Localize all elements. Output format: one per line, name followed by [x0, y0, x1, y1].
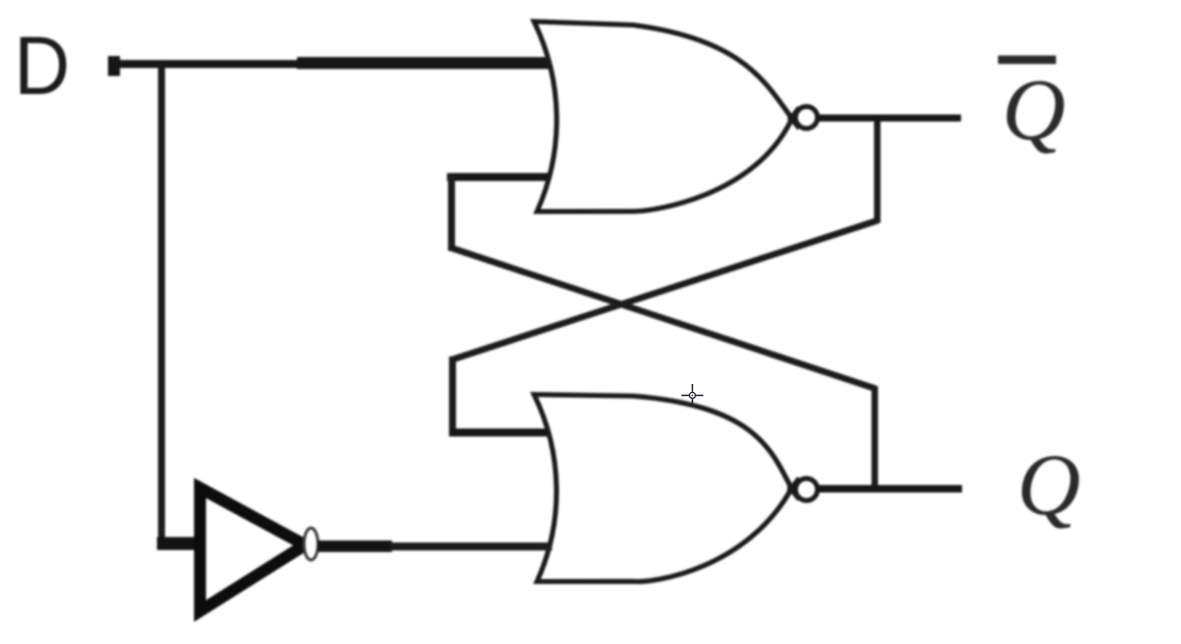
wire left vertical lower (feedback) — [449, 357, 456, 437]
inverter U3 output bubble — [304, 528, 318, 560]
wire diagonal B (cross from right-upper to left-lower) — [453, 221, 878, 360]
NOR gate U2 output bubble — [796, 479, 818, 501]
inverter U3 triangle — [200, 488, 305, 611]
NOR gate U1 body (top) — [534, 22, 792, 212]
NOR gate U2 body (bottom) — [534, 395, 792, 582]
wire bottom NOR output to Q — [819, 485, 962, 493]
mouse cursor crosshair — [681, 384, 703, 407]
wire D horizontal thick segment — [297, 57, 549, 69]
wire top NOR lower input (feedback from Q) — [447, 173, 552, 181]
node D terminal square — [108, 56, 120, 76]
wire left vertical upper (feedback) — [448, 173, 455, 251]
NOR gate U2 tip edge cross — [789, 478, 800, 500]
wire bottom NOR upper input (feedback from Qbar) — [449, 429, 552, 437]
node D label — [14, 19, 70, 112]
wire inverter output to bottom NOR lower input — [318, 541, 392, 553]
label Q — [1017, 437, 1081, 534]
NOR gate U1 tip edge cross — [789, 108, 799, 129]
wire right vertical lower (to bottom NOR output node) — [872, 386, 879, 492]
label Qbar overline — [998, 56, 1056, 65]
wire right vertical upper (from top NOR output node) — [874, 117, 881, 223]
wire elbow into inverter input — [157, 537, 201, 550]
wire top NOR output to Qbar — [819, 115, 961, 122]
wire D horizontal to top NOR input — [113, 60, 303, 68]
label Qbar Q — [1002, 62, 1066, 159]
wire diagonal A (cross from left-upper to right-lower) — [452, 248, 876, 389]
wire vertical from D down to inverter — [158, 63, 165, 538]
NOR gate U1 output bubble — [796, 107, 818, 129]
